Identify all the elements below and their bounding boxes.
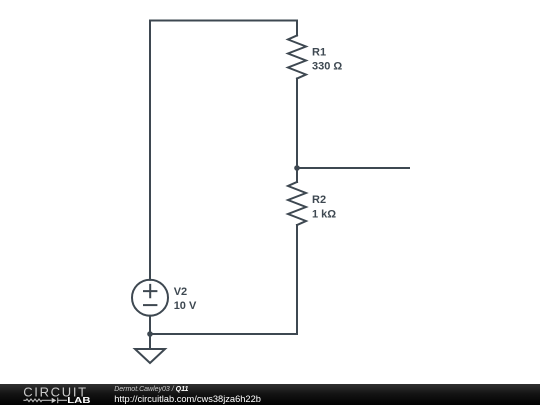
V2 minus sign	[144, 304, 156, 306]
wire top horizontal	[150, 20, 297, 22]
svg-text:330 Ω: 330 Ω	[312, 60, 342, 72]
resistor R2	[288, 182, 306, 225]
wire output from node A	[297, 167, 409, 169]
svg-text:R2: R2	[312, 194, 326, 206]
wire node A to R2	[296, 168, 298, 182]
svg-text:10 V: 10 V	[174, 300, 197, 312]
svg-text:http://circuitlab.com/cws38jza: http://circuitlab.com/cws38jza6h22b	[114, 394, 261, 404]
wire left vertical	[149, 21, 151, 280]
logo diode triangle	[52, 398, 57, 403]
svg-text:R1: R1	[312, 47, 326, 59]
svg-text:LAB: LAB	[67, 395, 90, 405]
wire R1 bottom to node A	[296, 79, 298, 169]
svg-text:Dermot.Cawley03 / Q11: Dermot.Cawley03 / Q11	[114, 386, 188, 393]
svg-text:V2: V2	[174, 286, 187, 298]
wire top-right to R1	[296, 21, 298, 36]
node A junction dot	[294, 165, 300, 171]
wire bottom horizontal	[150, 333, 297, 335]
V2 plus sign	[144, 285, 156, 297]
wire V2 bottom to node B	[149, 316, 151, 334]
logo resistor-diode symbol	[23, 398, 67, 404]
voltage source V2 circle	[132, 280, 168, 316]
svg-text:1 kΩ: 1 kΩ	[312, 208, 336, 220]
ground symbol	[135, 349, 165, 363]
node B junction dot	[147, 331, 153, 337]
resistor R1	[288, 36, 306, 79]
wire node B to ground	[149, 334, 151, 349]
wire R2 bottom to corner	[296, 225, 298, 334]
